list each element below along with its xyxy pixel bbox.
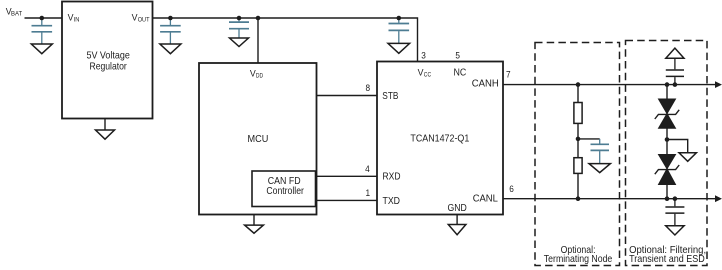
label CAN FD Controller — [266, 176, 304, 197]
ground at TVS midpoint — [679, 153, 696, 162]
ground below MCU — [245, 225, 264, 233]
ground below C5 — [589, 164, 610, 173]
wire regulator ground stem — [104, 119, 106, 131]
svg-text:Transient and ESD: Transient and ESD — [629, 254, 705, 265]
pin NC label — [454, 67, 467, 78]
svg-text:BAT: BAT — [11, 10, 22, 17]
wire VDD drop to MCU — [257, 18, 259, 63]
wire MCU ground stem — [253, 215, 255, 226]
svg-text:1: 1 — [366, 188, 371, 198]
junction node R1/CANH — [576, 82, 581, 87]
capacitor C2 (VOUT cap) — [160, 18, 181, 44]
pin CANH label — [472, 78, 499, 89]
pin VOUT label — [132, 12, 150, 23]
svg-text:IN: IN — [74, 16, 80, 23]
svg-text:4: 4 — [365, 164, 370, 174]
svg-text:3: 3 — [421, 50, 426, 60]
TCAN1472-Q1 box U2 — [377, 62, 503, 215]
capacitor C7 (CANL filter cap) — [665, 199, 684, 226]
label Optional: Filtering, Transient and ESD — [629, 245, 706, 265]
pin number 8 — [366, 83, 371, 93]
capacitor C3 (MCU supply cap) — [229, 18, 249, 38]
pin number 5 — [455, 50, 460, 60]
junction node C2/rail — [168, 16, 173, 21]
junction node R2/CANL — [576, 196, 581, 201]
junction node TVS/CANH — [665, 82, 670, 87]
label TCAN1472-Q1 — [410, 134, 469, 145]
wire RXD (MCU to TCAN pin 4) — [315, 175, 377, 177]
MCU box — [199, 63, 317, 215]
svg-text:5: 5 — [455, 50, 460, 60]
capacitor C4 (TCAN VCC cap) — [389, 18, 410, 43]
svg-text:V: V — [132, 12, 138, 22]
svg-text:CANL: CANL — [473, 193, 498, 204]
resistor R1 (termination upper) — [574, 103, 582, 124]
5V voltage regulator box U1 — [62, 2, 153, 119]
capacitor C1 (VBAT input cap) — [32, 18, 53, 44]
wire CANH bus — [503, 84, 716, 86]
junction node C1/rail — [40, 16, 45, 21]
svg-text:MCU: MCU — [248, 134, 269, 145]
junction node R1/R2 midpoint — [576, 137, 581, 142]
svg-text:Terminating Node: Terminating Node — [544, 254, 613, 265]
ground below C3 — [230, 38, 249, 47]
wire TXD (MCU to TCAN pin 1) — [315, 199, 377, 201]
wire termination cap tap — [578, 138, 600, 140]
pin number 3 — [421, 50, 426, 60]
capacitor C5 (termination split cap) — [591, 139, 610, 164]
wire TVS chain vertical — [666, 85, 668, 199]
wire TVS midpoint to ground — [667, 140, 688, 153]
label Optional: Terminating Node — [544, 245, 613, 265]
pin STB label — [382, 91, 398, 102]
pin VIN label — [68, 12, 80, 23]
svg-text:5V Voltage: 5V Voltage — [87, 51, 131, 62]
svg-text:CC: CC — [424, 72, 432, 79]
pin number 1 — [366, 188, 371, 198]
TVS diode D1 (bidirectional, CANH) — [655, 99, 679, 128]
svg-text:Regulator: Regulator — [90, 62, 128, 73]
optional filtering transient ESD dashed box — [626, 41, 708, 266]
pin VCC label — [418, 68, 432, 79]
CANL arrow — [715, 195, 722, 202]
CAN FD Controller box — [252, 171, 316, 207]
wire termination divider vertical — [577, 85, 579, 199]
ground below C7 — [666, 226, 684, 235]
pin TXD label — [383, 196, 401, 207]
svg-text:DD: DD — [256, 73, 263, 80]
resistor R2 (termination lower) — [574, 158, 582, 174]
ground below C1 — [31, 44, 52, 54]
pin VDD label — [250, 69, 263, 80]
svg-text:7: 7 — [506, 70, 511, 80]
ground above filter cap C6 (points up) — [666, 48, 684, 58]
junction node C3/rail — [237, 16, 242, 21]
pin number 4 — [365, 164, 370, 174]
wire 5V rail from VOUT to VCC corner — [153, 18, 418, 62]
wire VBAT lead to VIN — [25, 17, 63, 19]
ground below C4 — [388, 43, 410, 53]
optional terminating node dashed box — [535, 43, 620, 266]
junction node C4/rail — [397, 16, 402, 21]
pin number 6 — [509, 184, 514, 194]
label MCU — [248, 134, 269, 145]
svg-text:8: 8 — [366, 83, 371, 93]
capacitor C6 (CANH filter cap) — [666, 58, 684, 84]
svg-text:OUT: OUT — [138, 16, 150, 23]
junction node C6/CANH — [673, 82, 678, 87]
junction node TVS midpoint — [665, 137, 670, 142]
svg-text:CANH: CANH — [472, 78, 499, 89]
junction node C7/CANL — [673, 196, 678, 201]
svg-text:NC: NC — [454, 67, 467, 78]
pin RXD label — [383, 172, 401, 183]
wire STB (MCU to TCAN pin 8) — [315, 95, 377, 97]
svg-text:Controller: Controller — [266, 186, 304, 197]
label 5V Voltage Regulator — [87, 51, 131, 73]
ground below C2 — [160, 44, 181, 54]
pin CANL label — [473, 193, 498, 204]
svg-text:TXD: TXD — [383, 196, 401, 207]
ground below TCAN GND pin — [448, 225, 466, 235]
svg-text:GND: GND — [448, 203, 467, 214]
junction node VDD/rail — [256, 16, 261, 21]
junction node TVS/CANL — [665, 196, 670, 201]
svg-text:STB: STB — [382, 91, 398, 102]
CANH arrow — [715, 81, 722, 88]
svg-text:V: V — [418, 68, 424, 78]
pin GND label — [448, 203, 467, 214]
TVS diode D2 (bidirectional, CANL) — [655, 155, 679, 185]
node VBAT label — [6, 6, 22, 17]
pin number 7 — [506, 70, 511, 80]
svg-text:6: 6 — [509, 184, 514, 194]
ground below regulator — [96, 130, 115, 139]
wire TCAN GND stem — [456, 215, 458, 225]
svg-text:TCAN1472-Q1: TCAN1472-Q1 — [410, 134, 469, 145]
svg-text:RXD: RXD — [383, 172, 401, 183]
wire CANL bus — [503, 198, 716, 200]
